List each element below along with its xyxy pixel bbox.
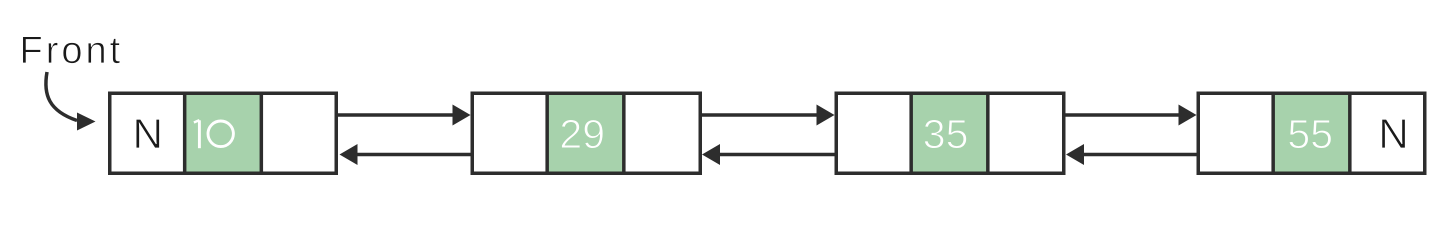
svg-text:N: N (1378, 110, 1408, 157)
svg-text:55: 55 (1287, 111, 1333, 157)
svg-text:29: 29 (559, 111, 605, 157)
svg-text:N: N (133, 110, 163, 157)
svg-text:35: 35 (923, 111, 969, 157)
svg-text:Front: Front (20, 30, 124, 72)
